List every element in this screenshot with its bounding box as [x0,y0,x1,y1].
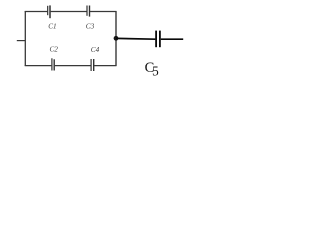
svg-text:C5: C5 [145,60,159,79]
wire: left vertical branch [24,11,26,66]
capacitor C1 [48,5,50,18]
svg-text:C2: C2 [50,45,59,53]
wire: bottom rail middle segment [55,65,91,67]
wire: C5 to right terminal [161,38,183,40]
capacitor C5 [155,31,161,48]
svg-text:C1: C1 [48,23,56,31]
wire: top rail left segment [25,11,48,13]
node: junction dot on right branch [114,36,119,41]
wire: right vertical branch [115,11,117,66]
capacitor C2 [52,58,54,70]
wire: bottom rail right segment [94,65,116,67]
svg-text:C3: C3 [86,23,95,31]
wire: left input stub [17,40,26,42]
wire: top rail middle segment [51,11,87,13]
wire: top rail right segment [90,11,117,13]
svg-text:C4: C4 [91,46,100,54]
wire: junction to C5 [116,37,155,40]
capacitor C4 [91,59,94,71]
wire: bottom rail left segment [25,65,52,67]
capacitor C3 [87,6,90,17]
